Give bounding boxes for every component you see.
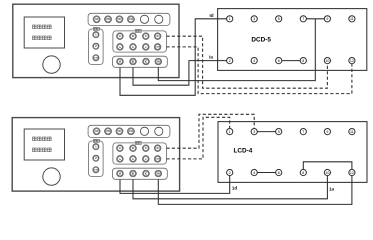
svg-text:A: A xyxy=(119,34,121,38)
svg-text:9: 9 xyxy=(326,17,328,21)
svg-text:C: C xyxy=(145,34,147,38)
svg-text:1a: 1a xyxy=(329,186,335,191)
svg-text:11: 11 xyxy=(350,130,354,134)
svg-text:IB: IB xyxy=(132,59,135,63)
svg-text:6: 6 xyxy=(278,171,280,175)
svg-text:1d: 1d xyxy=(232,185,238,190)
svg-text:12: 12 xyxy=(350,171,354,175)
svg-text:3: 3 xyxy=(253,130,255,134)
svg-text:5: 5 xyxy=(278,17,280,21)
svg-text:R: R xyxy=(157,146,159,150)
svg-text:UC: UC xyxy=(118,18,122,21)
svg-text:UB: UB xyxy=(106,18,110,21)
svg-text:1: 1 xyxy=(229,17,231,21)
svg-text:IN: IN xyxy=(157,171,160,175)
svg-text:Ia: Ia xyxy=(209,55,213,60)
svg-text:11: 11 xyxy=(350,17,354,21)
svg-text:7: 7 xyxy=(302,17,304,21)
svg-text:R: R xyxy=(157,34,159,38)
svg-text:IC: IC xyxy=(145,59,148,63)
svg-text:UB: UB xyxy=(106,130,110,133)
svg-text:9: 9 xyxy=(326,130,328,134)
svg-text:12: 12 xyxy=(350,59,354,63)
svg-text:3: 3 xyxy=(253,17,255,21)
svg-text:B: B xyxy=(132,34,134,38)
svg-text:UA: UA xyxy=(95,130,99,133)
svg-text:DCD-5: DCD-5 xyxy=(251,37,271,44)
svg-text:IA: IA xyxy=(119,59,122,63)
svg-text:UC: UC xyxy=(118,130,122,133)
svg-text:1: 1 xyxy=(229,130,231,134)
svg-text:5: 5 xyxy=(278,130,280,134)
svg-text:2: 2 xyxy=(229,171,231,175)
svg-text:B: B xyxy=(132,146,134,150)
svg-text:IN: IN xyxy=(157,59,160,63)
svg-text:4: 4 xyxy=(253,171,255,175)
svg-text:IC: IC xyxy=(145,171,148,175)
svg-text:10: 10 xyxy=(325,59,329,63)
svg-text:2: 2 xyxy=(229,59,231,63)
svg-text:10: 10 xyxy=(325,171,329,175)
svg-text:6: 6 xyxy=(278,59,280,63)
svg-text:UA: UA xyxy=(95,18,99,21)
svg-text:UN: UN xyxy=(129,18,133,21)
svg-text:LCD-4: LCD-4 xyxy=(233,147,252,154)
svg-text:C: C xyxy=(145,146,147,150)
svg-text:8: 8 xyxy=(302,59,304,63)
svg-text:8: 8 xyxy=(302,171,304,175)
svg-text:7: 7 xyxy=(302,130,304,134)
svg-text:4: 4 xyxy=(253,59,255,63)
svg-text:IB: IB xyxy=(132,171,135,175)
svg-text:IA: IA xyxy=(119,171,122,175)
svg-text:UN: UN xyxy=(129,130,133,133)
svg-text:A: A xyxy=(119,146,121,150)
svg-text:Id: Id xyxy=(209,13,213,18)
